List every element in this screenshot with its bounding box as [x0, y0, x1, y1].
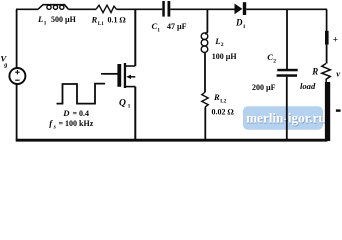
- svg-text:Q: Q: [119, 98, 126, 109]
- wire left branch: [16, 9, 18, 67]
- svg-text:200 µF: 200 µF: [252, 83, 276, 92]
- svg-text:g: g: [3, 61, 7, 68]
- label C2 200 uF: [252, 52, 276, 92]
- label C1 47 uF: [152, 21, 187, 33]
- svg-text:R: R: [91, 15, 98, 25]
- label fs = 100 kHz: [49, 118, 93, 130]
- svg-text:L: L: [214, 36, 220, 46]
- resistor R load: [322, 64, 331, 83]
- label L1 500 uH: [37, 14, 77, 27]
- label R load: [300, 67, 318, 91]
- svg-text:L1: L1: [98, 21, 104, 27]
- svg-text:D: D: [235, 18, 243, 28]
- wire top rail: [16, 8, 327, 10]
- resistor RL2: [202, 92, 208, 107]
- svg-text:47 µF: 47 µF: [167, 22, 187, 31]
- wire C2 top lead: [286, 9, 288, 69]
- svg-text:L2: L2: [220, 98, 226, 104]
- label RL2 0.02 ohm: [212, 92, 234, 117]
- svg-text:0.1 Ω: 0.1 Ω: [108, 16, 126, 25]
- svg-text:1: 1: [128, 103, 131, 109]
- label minus: [336, 109, 341, 111]
- svg-text:L: L: [37, 14, 43, 24]
- svg-text:1: 1: [157, 27, 160, 33]
- svg-text:= 0.4: = 0.4: [73, 109, 90, 118]
- wire source to bottom: [16, 84, 18, 140]
- diode D1: [235, 4, 243, 15]
- svg-text:R: R: [311, 67, 318, 77]
- wire Q1 source: [134, 87, 136, 140]
- wire bottom rail: [16, 139, 328, 142]
- label D1: [235, 18, 246, 31]
- transistor Q1: [101, 63, 135, 88]
- label L2 100 uH: [212, 36, 238, 61]
- watermark merlin-igor.ru: [243, 106, 326, 130]
- capacitor C1: [162, 1, 165, 17]
- svg-text:R: R: [213, 92, 220, 102]
- svg-text:2: 2: [221, 42, 224, 48]
- wire RL2 to bottom: [204, 107, 206, 140]
- label Q1: [119, 98, 131, 110]
- gate drive square wave: [57, 84, 106, 104]
- label Vg: [0, 53, 7, 68]
- wire C2 bottom lead: [286, 77, 288, 140]
- svg-text:500 µH: 500 µH: [51, 15, 77, 24]
- thick segment: [325, 31, 329, 45]
- label D = 0.4: [62, 108, 89, 118]
- resistor RL1: [96, 5, 117, 12]
- wire Q1 drain: [134, 9, 136, 66]
- wire gate lead: [104, 73, 118, 75]
- svg-text:+: +: [333, 36, 338, 46]
- svg-text:1: 1: [243, 24, 246, 30]
- label RL1 0.1 ohm: [91, 15, 126, 28]
- wire load bottom lead: [325, 82, 330, 141]
- svg-text:load: load: [300, 81, 316, 91]
- inductor L2: [201, 33, 208, 40]
- source Vg: [9, 68, 25, 84]
- node wire C1/L2/D1: [205, 9, 207, 34]
- capacitor C2: [277, 69, 297, 72]
- svg-text:100 µH: 100 µH: [212, 52, 238, 61]
- wire right branch top: [326, 9, 328, 31]
- svg-text:= 100 kHz: = 100 kHz: [59, 119, 94, 128]
- svg-text:2: 2: [273, 58, 276, 64]
- inductor L1: [38, 5, 69, 10]
- svg-text:1: 1: [44, 21, 47, 27]
- wire L2 to RL2: [204, 52, 206, 92]
- svg-text:D: D: [62, 108, 69, 118]
- svg-text:0.02 Ω: 0.02 Ω: [212, 108, 234, 117]
- svg-text:v: v: [336, 69, 340, 79]
